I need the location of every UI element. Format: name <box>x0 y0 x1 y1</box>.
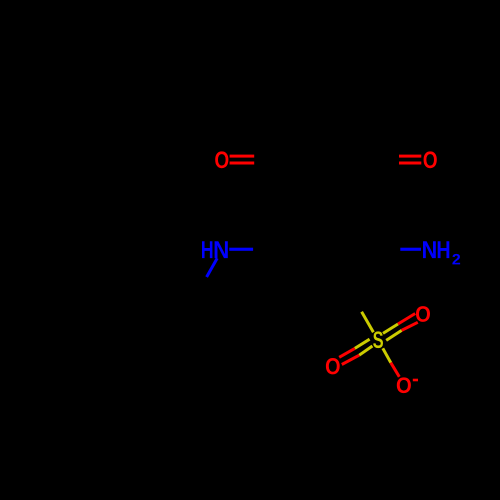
atom O of C10=O (right carbonyl) <box>424 151 437 168</box>
single bond S-O(-) <box>383 348 400 377</box>
double bond C9=O red half <box>230 155 255 165</box>
atom label HN (anilino nitrogen) <box>202 241 228 258</box>
atom O of C9=O (left carbonyl) <box>215 151 228 168</box>
bond C2-S black half <box>349 287 361 312</box>
atom label NH2 (amino) <box>423 241 460 264</box>
bond C4-NH black half <box>253 248 285 251</box>
atom O (sulfonate lower-left oxygen) <box>326 358 340 374</box>
double bond S=O lower-left line1 <box>339 339 369 357</box>
ring A (substituted benzene) C1-C2-C3-C4-C4a-C9a <box>285 212 371 287</box>
phenyl ring <box>129 304 215 380</box>
ring C (benzo) <box>286 51 370 124</box>
ring B (quinone) C4a-C9-C8a-C10a-C10-C9a <box>287 124 368 212</box>
double bond C10=O red half <box>399 155 421 165</box>
negative charge minus sign <box>413 379 418 382</box>
atom O- (anionic oxygen) <box>397 377 411 393</box>
bond HN-phenyl blue half <box>207 258 218 277</box>
atom O (sulfonate upper-right oxygen) <box>416 306 430 322</box>
bond HN-C4 blue half <box>229 248 253 251</box>
bond C1-NH2 black half <box>371 248 401 251</box>
bond C10=O black half <box>367 155 399 165</box>
bond NH-phenyl black half <box>192 277 207 304</box>
bond C9=O black half <box>254 155 287 165</box>
double bond S=O upper-right line2 <box>386 322 418 340</box>
double bond S=O upper-right line1 <box>383 314 415 334</box>
atom S (sulfonate sulfur) <box>373 331 383 348</box>
bond C2-S yellow half <box>362 312 374 333</box>
bond NH2-C1 blue half <box>400 248 421 251</box>
double bond S=O lower-left line2 <box>342 346 373 365</box>
